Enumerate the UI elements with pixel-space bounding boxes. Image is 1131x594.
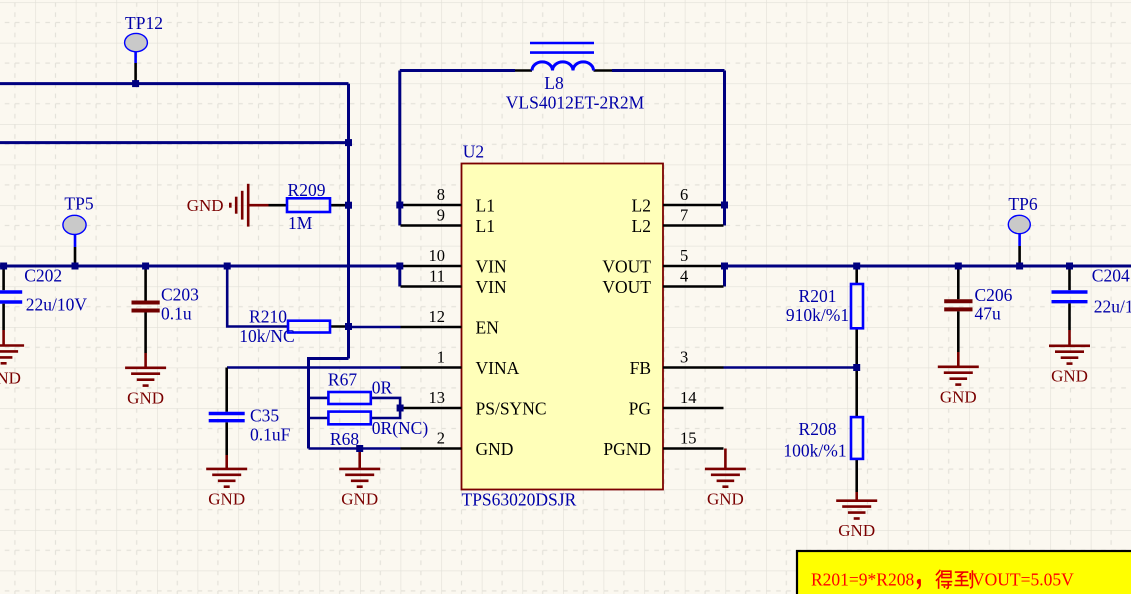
svg-text:VOUT: VOUT [602, 277, 651, 297]
svg-text:L2: L2 [632, 196, 651, 216]
junction R68 GND [356, 445, 363, 452]
ground GND at R209 (earth bars) [230, 184, 268, 227]
resistor R208 [851, 417, 863, 459]
svg-text:910k/%1: 910k/%1 [786, 305, 849, 325]
pin 7 L2 [663, 224, 724, 227]
junction C202 [0, 263, 7, 270]
wire R201 bottom to FB to R208 [855, 328, 858, 417]
junction R201 top [853, 263, 860, 270]
capacitor C204 [1052, 266, 1088, 346]
svg-text:1M: 1M [288, 213, 313, 233]
svg-text:R209: R209 [288, 180, 326, 200]
svg-text:12: 12 [429, 307, 446, 326]
svg-text:GND: GND [341, 489, 378, 508]
svg-text:7: 7 [680, 205, 688, 224]
wire R68 left lead [309, 417, 329, 420]
junction pin6 [721, 202, 728, 209]
svg-text:PS/SYNC: PS/SYNC [476, 399, 547, 419]
ground GND at C202 [0, 346, 24, 364]
pin 13 PS/SYNC [400, 407, 461, 410]
test point TP5 [74, 235, 77, 248]
svg-text:GND: GND [127, 388, 164, 407]
junction C204 [1066, 263, 1073, 270]
junction C206 [955, 263, 962, 270]
junction pin5 [721, 263, 728, 270]
ground GND at pin 15 [705, 449, 746, 487]
capacitor C202 [0, 266, 22, 346]
svg-text:R201: R201 [799, 286, 837, 306]
svg-text:FB: FB [630, 358, 651, 378]
svg-text:GND: GND [476, 439, 514, 459]
wire top net y=83.6 [0, 82, 349, 85]
wire VIN pin11 vertical [398, 266, 401, 287]
junction TP6 [1016, 263, 1023, 270]
wire R210 right lead [330, 325, 349, 328]
svg-text:GND: GND [1051, 366, 1088, 385]
note fullwidth comma [917, 579, 921, 590]
pin 11 VIN [401, 285, 462, 288]
svg-text:22u/10V: 22u/10V [1094, 297, 1131, 317]
wire L2 vertical right [723, 71, 726, 226]
svg-text:9: 9 [437, 205, 445, 224]
svg-text:VINA: VINA [476, 358, 520, 378]
svg-text:TPS63020DSJR: TPS63020DSJR [462, 490, 577, 510]
svg-text:2: 2 [437, 428, 445, 447]
test point TP12 [134, 52, 137, 63]
note glyph DE (得) [936, 570, 952, 589]
svg-text:PGND: PGND [603, 439, 651, 459]
svg-text:L2: L2 [632, 216, 651, 236]
svg-text:0R(NC): 0R(NC) [372, 418, 429, 438]
pin 3 FB [663, 366, 724, 369]
junction R210 branch [224, 263, 231, 270]
junction x348 y142 [345, 139, 352, 146]
svg-text:R67: R67 [328, 370, 357, 390]
svg-text:6: 6 [680, 185, 688, 204]
svg-text:C202: C202 [24, 266, 62, 286]
wire L1 vertical left [398, 71, 401, 226]
wire vertical x=348.5 [347, 84, 350, 359]
svg-text:L1: L1 [476, 216, 495, 236]
svg-text:5: 5 [680, 246, 688, 265]
wire FB net [724, 366, 857, 369]
svg-text:R208: R208 [799, 419, 837, 439]
svg-text:R201=9*R208: R201=9*R208 [811, 570, 914, 590]
pin 5 VOUT [663, 265, 724, 268]
ground GND at R208 [836, 501, 877, 519]
wire inductor top left [400, 69, 515, 72]
svg-text:100k/%1: 100k/%1 [783, 441, 846, 461]
svg-text:GND: GND [940, 387, 977, 406]
wire jog to R67/R68 column [309, 359, 349, 449]
svg-text:22u/10V: 22u/10V [26, 295, 88, 315]
junction TP12 [132, 80, 139, 87]
svg-text:C203: C203 [161, 285, 199, 305]
IC U2 body [462, 164, 664, 490]
ground GND at R68 junction [339, 449, 380, 487]
svg-text:GND: GND [208, 489, 245, 508]
junction R210 right [345, 323, 352, 330]
capacitor C203 [132, 266, 160, 368]
svg-text:0.1uF: 0.1uF [250, 425, 291, 445]
svg-text:L1: L1 [476, 196, 495, 216]
svg-text:8: 8 [437, 185, 445, 204]
svg-text:C35: C35 [250, 406, 279, 426]
svg-text:EN: EN [476, 318, 500, 338]
wire R67 left lead [309, 397, 329, 400]
svg-text:47u: 47u [975, 304, 1002, 324]
pin 14 PG [663, 407, 724, 410]
pin 1 VINA [401, 366, 462, 369]
wire R201 top lead [855, 266, 858, 284]
pin 4 VOUT [663, 285, 724, 288]
resistor R67 [328, 392, 370, 404]
svg-text:10: 10 [429, 246, 446, 265]
wire R210 branch vertical [227, 266, 288, 327]
junction R209 right [345, 202, 352, 209]
wire R67 right lead [371, 398, 400, 408]
ground GND at C35 [206, 469, 247, 487]
svg-text:VIN: VIN [476, 257, 507, 277]
ground GND at C206 [938, 367, 979, 385]
svg-text:GND: GND [187, 196, 224, 215]
junction TP5 [72, 263, 79, 270]
test point TP6 [1018, 234, 1021, 247]
ground GND at C204 [1049, 346, 1090, 364]
capacitor C206 [944, 266, 972, 367]
junction pin8 [396, 202, 403, 209]
wire VOUT bus right [724, 265, 1131, 268]
svg-text:VOUT=5.05V: VOUT=5.05V [972, 570, 1074, 590]
pin 8 L1 [401, 204, 462, 207]
svg-text:GND: GND [838, 521, 875, 540]
svg-text:GND: GND [0, 369, 21, 388]
wire VOUT pin4 vertical [723, 266, 726, 287]
svg-text:10k/NC: 10k/NC [239, 326, 294, 346]
resistor R210 [288, 321, 330, 333]
resistor R68 [328, 412, 370, 425]
pin 2 GND [401, 447, 462, 450]
svg-text:0R: 0R [372, 378, 393, 398]
wire R68 right lead [371, 408, 400, 418]
wire inductor top right [612, 69, 725, 72]
svg-text:U2: U2 [463, 142, 484, 162]
svg-text:VIN: VIN [476, 277, 507, 297]
svg-text:1: 1 [437, 347, 445, 366]
wire R208 bottom stem [855, 459, 858, 492]
note box [797, 551, 1131, 594]
capacitor C35 [209, 414, 245, 469]
pin 9 L1 [401, 224, 462, 227]
junction FB [853, 364, 860, 371]
svg-text:GND: GND [707, 489, 744, 508]
pin 15 PGND [663, 447, 724, 450]
svg-text:VLS4012ET-2R2M: VLS4012ET-2R2M [506, 93, 645, 113]
wire VIN bus left [0, 265, 400, 268]
resistor R201 [851, 284, 863, 328]
svg-text:3: 3 [680, 347, 688, 366]
svg-text:TP5: TP5 [64, 194, 93, 214]
svg-text:13: 13 [429, 388, 446, 407]
junction C203 [142, 263, 149, 270]
wire VINA net [227, 366, 401, 369]
svg-text:R68: R68 [330, 429, 359, 449]
svg-text:15: 15 [680, 428, 697, 447]
svg-text:TP6: TP6 [1008, 194, 1037, 214]
pin 10 VIN [401, 265, 462, 268]
svg-text:VOUT: VOUT [602, 257, 651, 277]
pin 6 L2 [663, 204, 724, 207]
svg-text:0.1u: 0.1u [161, 304, 192, 324]
note glyph DAO (到) [954, 570, 972, 588]
svg-text:L8: L8 [544, 73, 564, 93]
svg-text:4: 4 [680, 266, 688, 285]
svg-text:PG: PG [629, 399, 652, 419]
pin 12 EN [401, 326, 462, 329]
svg-text:C204: C204 [1092, 266, 1130, 286]
ground GND at C203 [125, 368, 166, 386]
junction pin10 [396, 263, 403, 270]
svg-text:14: 14 [680, 388, 697, 407]
svg-text:C206: C206 [975, 285, 1013, 305]
inductor L8 [515, 43, 612, 71]
wire second net y=142.6 [0, 141, 349, 144]
resistor R209 [269, 198, 349, 212]
svg-text:R210: R210 [249, 307, 287, 327]
svg-text:TP12: TP12 [125, 13, 163, 33]
junction R67 R68 right [397, 405, 404, 412]
wire C35 top [225, 368, 228, 412]
svg-text:11: 11 [429, 266, 445, 285]
wire GND net pin2 [309, 447, 401, 450]
wire EN net [349, 326, 401, 329]
